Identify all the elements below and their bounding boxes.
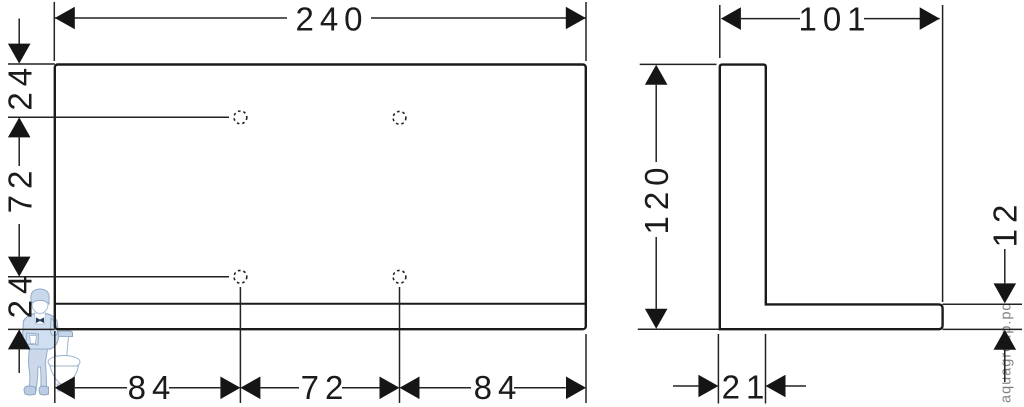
left dim chain 24/72/24	[8, 19, 229, 374]
bottom dim chain 84/72/84	[55, 287, 586, 403]
svg-text:72: 72	[301, 369, 350, 406]
dim 101 top	[720, 5, 943, 302]
plate front edge line	[55, 303, 586, 305]
svg-text:aquagroup.pd: aquagroup.pd	[999, 302, 1015, 404]
svg-text:240: 240	[295, 0, 368, 37]
hole bottom-right	[393, 270, 406, 283]
svg-text:120: 120	[638, 161, 675, 234]
plate outline	[55, 65, 586, 330]
hole top-left	[234, 111, 247, 124]
svg-text:21: 21	[722, 369, 771, 406]
svg-text:101: 101	[798, 0, 871, 37]
dim 240 top	[54, 2, 586, 61]
svg-text:12: 12	[987, 199, 1024, 248]
dim 12 right	[943, 249, 1022, 382]
L profile outline	[720, 65, 943, 330]
svg-text:24: 24	[1, 62, 38, 111]
watermark vertical text right edge	[999, 302, 1015, 404]
watermark mascot (plumber with toilet), bottom-left	[23, 289, 81, 395]
hole top-right	[393, 111, 406, 124]
svg-text:84: 84	[474, 369, 523, 406]
svg-text:24: 24	[1, 270, 38, 319]
dim 21 bottom	[673, 334, 806, 404]
hole bottom-left	[234, 270, 247, 283]
svg-text:72: 72	[1, 165, 38, 214]
dim 120 left of profile	[638, 64, 720, 329]
svg-text:84: 84	[128, 369, 177, 406]
